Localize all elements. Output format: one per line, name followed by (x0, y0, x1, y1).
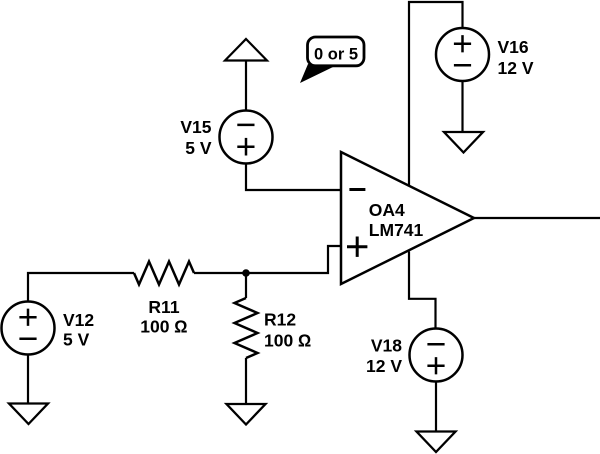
svg-text:LM741: LM741 (369, 220, 424, 240)
resistor R12 (235, 298, 312, 358)
ground under V12 (9, 404, 48, 425)
svg-text:V18: V18 (371, 336, 402, 356)
op-amp OA4 LM741 (341, 152, 474, 284)
svg-text:5 V: 5 V (185, 138, 212, 158)
wire V16 to ground (461, 81, 463, 133)
svg-text:100 Ω: 100 Ω (140, 317, 188, 337)
svg-text:12 V: 12 V (366, 356, 402, 376)
wire V18 to ground (435, 382, 437, 433)
wire port arrow to V15 (245, 61, 247, 111)
ground under V18 (417, 432, 456, 453)
wire op-amp output (474, 217, 600, 219)
svg-text:5 V: 5 V (63, 330, 90, 350)
wire R11 to junction to op-amp plus step (194, 246, 341, 273)
ground under V16 (444, 132, 483, 153)
wire R12 to ground (245, 358, 247, 403)
voltage source V15 (180, 111, 272, 164)
svg-text:V15: V15 (180, 117, 211, 137)
voltage source V18 (366, 329, 463, 382)
svg-text:OA4: OA4 (369, 200, 405, 220)
svg-text:12 V: 12 V (498, 58, 534, 78)
svg-text:R12: R12 (264, 309, 296, 329)
resistor R11 (134, 262, 194, 337)
svg-text:0 or 5: 0 or 5 (314, 45, 358, 63)
wire V12 bottom to ground (27, 354, 29, 403)
ground under R12 (227, 404, 266, 425)
svg-text:V16: V16 (498, 37, 529, 57)
voltage source V12 (2, 302, 95, 355)
voltage source V16 (436, 28, 534, 81)
input port arrow above V15 (225, 39, 267, 61)
node junction (242, 269, 250, 277)
svg-text:100 Ω: 100 Ω (264, 330, 312, 350)
wire V15 to op-amp inverting input (246, 163, 341, 190)
svg-text:R11: R11 (148, 297, 179, 317)
callout bubble "0 or 5" (300, 37, 364, 83)
wire V12 top to R11 (28, 273, 134, 302)
wire top power rail from op-amp to V16 (409, 2, 463, 186)
wire junction down to R12 (245, 273, 247, 298)
wire op-amp bottom power pin to V18 (409, 252, 436, 330)
svg-text:V12: V12 (63, 310, 94, 330)
